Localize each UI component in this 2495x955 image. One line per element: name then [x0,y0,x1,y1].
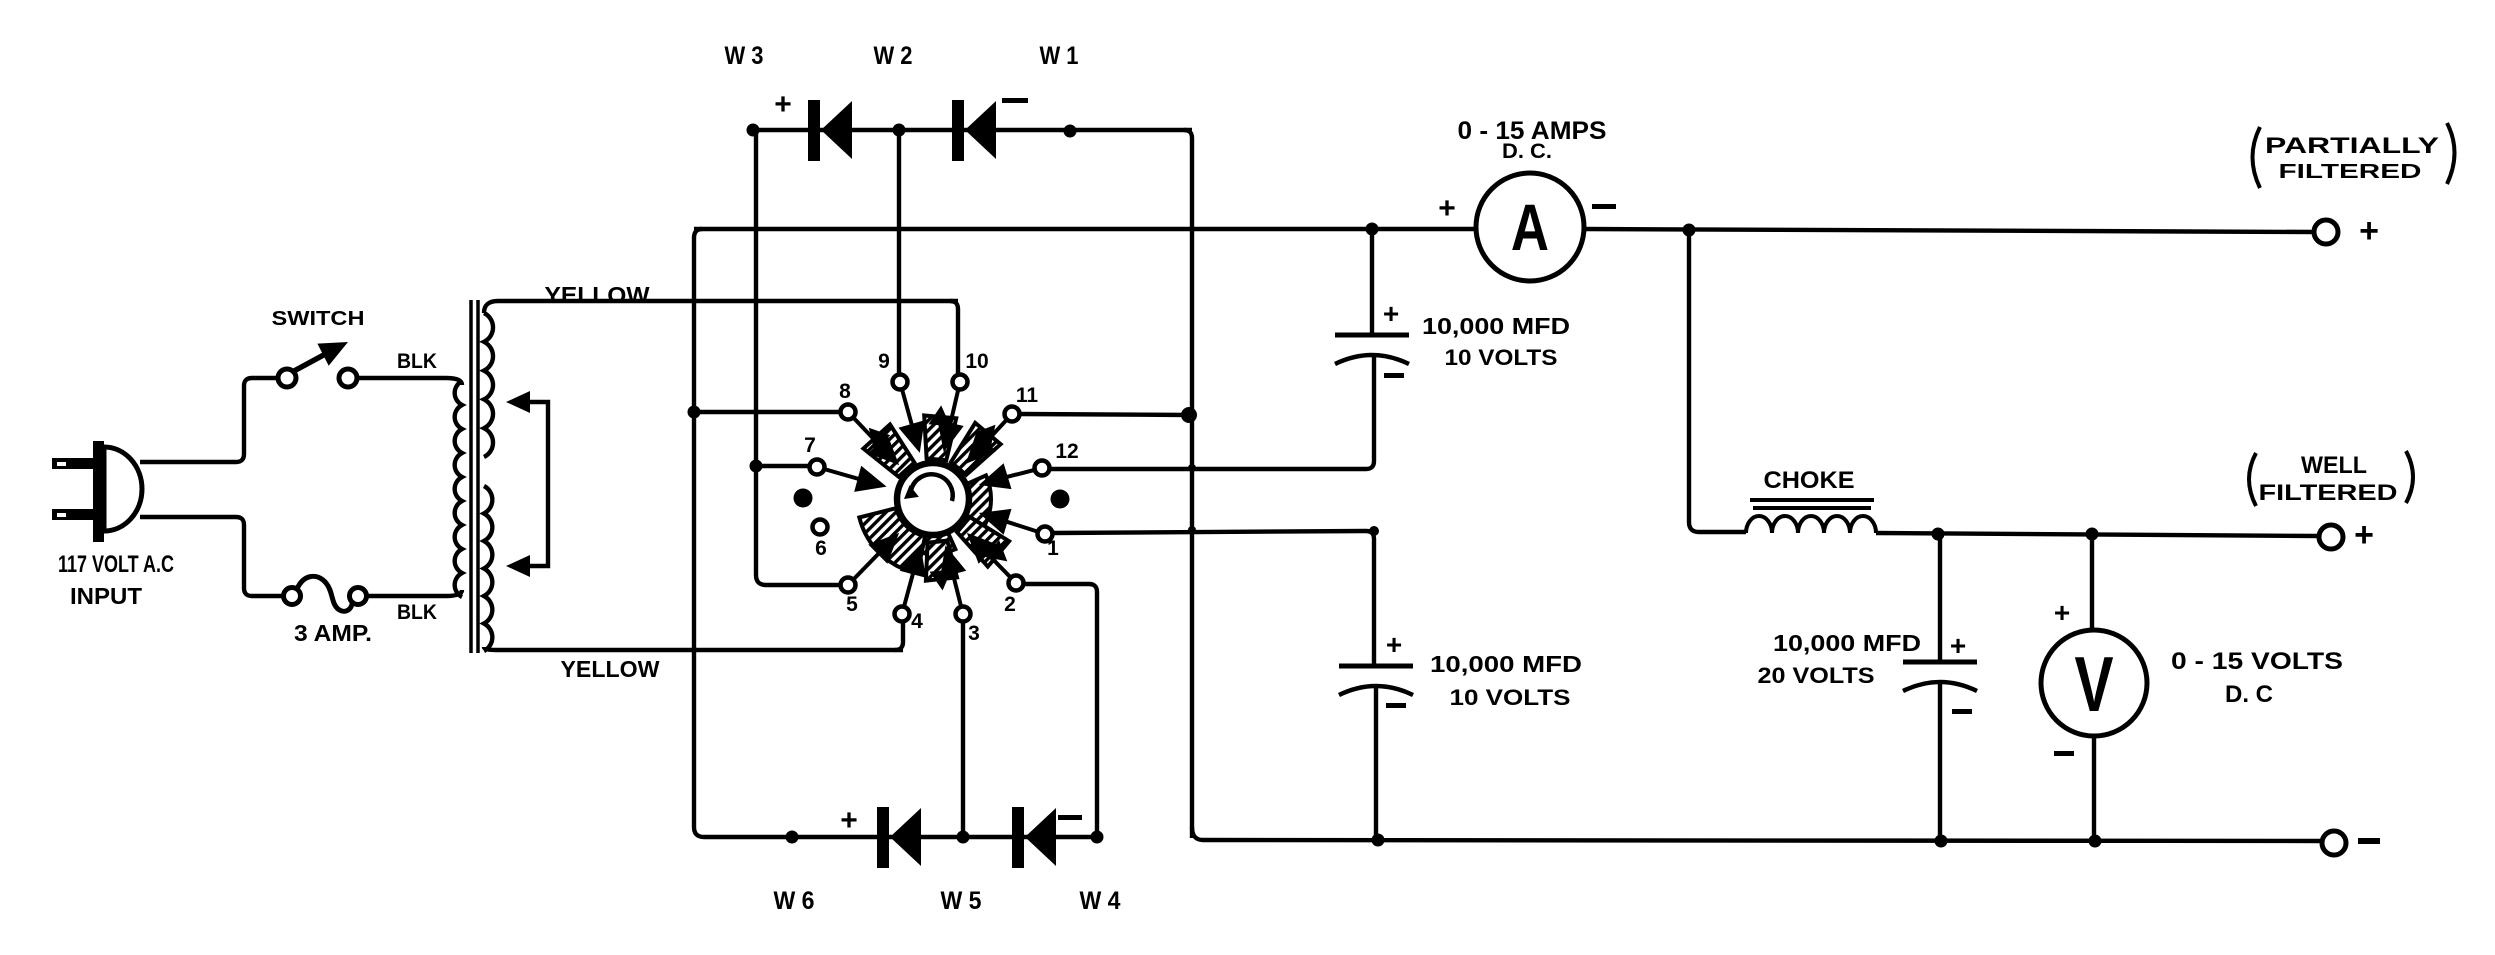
main positive wire [694,227,1476,231]
AC line plug [52,441,142,542]
label 0-15 AMPS DC [1458,117,1607,163]
wire top diode row [753,128,1192,132]
svg-text:+: + [774,88,792,121]
corner dot at C2 top corner [1369,526,1379,536]
terminal number labels [804,350,1079,645]
svg-text:FILTERED: FILTERED [2259,480,2398,505]
wire terminal 12 to cap C1 bottom [1049,357,1374,469]
mounting dot left [794,489,813,508]
label - output [2358,838,2380,844]
label WELL FILTERED [2249,451,2413,506]
wire plug to switch [140,378,278,462]
svg-text:CHOKE: CHOKE [1764,467,1855,494]
svg-text:W 1: W 1 [1040,42,1079,70]
svg-text:WELL: WELL [2301,452,2367,479]
svg-text:YELLOW: YELLOW [561,656,660,682]
junction between W3 and W2 [893,124,906,137]
wire C3 bottom lead [1938,684,1942,841]
transformer T1 secondary lower winding [484,486,492,651]
svg-text:INPUT: INPUT [70,583,142,609]
crossing dot on negative rail (t12 wire) [1188,464,1196,472]
ammeter M1 0-15 A DC [1476,173,1584,281]
output terminal negative - [2322,831,2346,855]
output terminal well-filtered + [2319,525,2343,549]
junction C2 on bottom rail [1372,834,1385,847]
svg-text:117 VOLT A.C: 117 VOLT A.C [58,551,174,578]
wire terminal 3 down to bottom diode row [961,622,965,837]
rotor hub circle with rotation arrow [897,463,969,535]
commutator terminal circles 1-12 [810,375,1053,622]
wire terminal 11 to negative rail [1019,414,1189,415]
svg-text:SWITCH: SWITCH [272,307,365,330]
wire vertical from W3 to terminal 5 wire [756,130,837,585]
svg-text:D. C.: D. C. [1502,140,1552,163]
svg-text:+: + [1438,192,1456,225]
wire terminal 2 down to bottom diode row [1024,584,1097,837]
svg-text:W 2: W 2 [874,42,913,70]
wire switch to transformer primary [357,378,462,385]
wire voltmeter top lead [2090,534,2094,630]
junction voltmeter top [2086,528,2099,541]
choke L1 core bars [1750,500,1874,508]
junction terminal-7 wire on vertical [750,460,763,473]
junction after W2 [1064,125,1077,138]
label C3 value [1758,630,1922,688]
bottom negative rail [1192,827,2322,841]
svg-text:+: + [1386,629,1402,660]
wire terminal 5 [837,583,841,587]
svg-text:W 5: W 5 [941,887,982,915]
junction terminal 11 on negative rail [1181,407,1197,423]
wire secondary top vertical to terminal 10 [950,301,958,373]
svg-text:BLK: BLK [397,350,437,373]
capacitor C3 10000MFD 20V [1903,660,1977,665]
svg-text:W 3: W 3 [725,42,764,70]
svg-text:12: 12 [1055,440,1078,463]
crossing dot on negative rail (t1 wire) [1188,526,1196,534]
svg-text:10,000 MFD: 10,000 MFD [1773,630,1921,656]
svg-text:+: + [1950,630,1966,661]
diode W2 [952,100,964,161]
svg-text:D. C: D. C [2225,681,2273,708]
svg-text:YELLOW: YELLOW [545,282,650,308]
svg-text:W 6: W 6 [774,887,815,915]
label - at W1 [1002,98,1028,103]
transformer T1 core [471,300,478,653]
junction choke branch [1683,224,1696,237]
fuse F1 3 AMP [284,576,367,611]
wire vertical from W2 to terminal 9 [897,130,901,373]
label C2 value [1430,651,1582,710]
output terminal partially-filtered + [2314,220,2338,244]
wire ammeter junction down to choke [1689,230,1746,532]
svg-text:V: V [2074,641,2113,728]
secondary center-tap bracket with arrows [506,391,548,577]
transformer T1 primary winding [455,381,462,597]
diode W3 [808,100,820,161]
svg-text:3 AMP.: 3 AMP. [294,620,372,646]
wire choke to well-filtered output [1876,533,2319,536]
label 117 VOLT A.C INPUT [58,551,174,609]
svg-text:+: + [2354,516,2374,554]
wire secondary bottom vertical to terminal 4 [895,622,903,650]
junction voltmeter on bottom rail [2089,835,2102,848]
label - at ammeter [1592,204,1616,209]
rotary rectifier hatched rotor [859,405,1009,590]
wire vertical negative rail W1/W4 [1184,130,1192,838]
wire voltmeter bottom lead [2092,736,2096,841]
svg-text:0 - 15 VOLTS: 0 - 15 VOLTS [2171,648,2343,675]
label - at C2 [1386,703,1406,708]
choke L1 winding [1746,516,1876,533]
junction C3 on bottom rail [1935,835,1948,848]
wire terminal 8 to left vertical [694,410,841,414]
diode W5 [877,807,889,868]
wire plug to fuse [140,517,283,596]
wire terminal 7 to W3 vertical [756,464,810,468]
voltmeter M2 0-15 V DC [2041,630,2147,736]
svg-text:A: A [1511,190,1549,264]
svg-text:+: + [1383,298,1399,329]
svg-text:W 4: W 4 [1080,887,1121,915]
svg-text:PARTIALLY: PARTIALLY [2265,133,2439,158]
svg-text:+: + [2359,212,2379,250]
junction at W3 anode [747,124,760,137]
terminal pointer arrows into rotor [817,382,1045,614]
svg-text:3: 3 [968,622,980,645]
svg-text:+: + [840,804,858,837]
wire ammeter to partially-filtered output [1584,229,2314,232]
svg-text:6: 6 [815,537,827,560]
svg-text:10 VOLTS: 10 VOLTS [1445,345,1558,370]
junction cap C1 top [1366,223,1379,236]
svg-text:20 VOLTS: 20 VOLTS [1758,663,1875,688]
label - at W4 [1058,815,1082,820]
label - at voltmeter [2054,751,2074,756]
wire C3 top lead [1938,534,1942,661]
wire fuse to transformer primary [367,590,462,596]
junction after W4 [1091,831,1104,844]
svg-text:10: 10 [965,350,988,373]
wire C2 bottom lead [1374,688,1378,840]
junction terminal-8 wire on left vertical [688,406,701,419]
svg-text:10 VOLTS: 10 VOLTS [1450,685,1571,710]
switch S1 [278,342,357,387]
svg-text:5: 5 [846,593,858,616]
label - at C1 [1384,373,1404,378]
label - at C3 [1952,709,1972,714]
capacitor C1 10000MFD 10V [1335,333,1409,338]
mounting dot right [1051,490,1070,509]
diode W4 [1012,807,1024,868]
transformer T1 secondary upper winding [484,301,958,313]
svg-text:+: + [2054,597,2070,628]
wire C1 top lead [1370,229,1374,334]
capacitor C2 10000MFD 10V [1339,664,1413,669]
wire bottom diode row [694,229,1097,837]
label PARTIALLY FILTERED [2253,123,2455,188]
svg-text:7: 7 [804,434,816,457]
label C1 value [1422,313,1570,370]
junction between W5 and W4 [957,831,970,844]
svg-text:8: 8 [839,380,851,403]
svg-text:4: 4 [911,610,923,633]
svg-text:9: 9 [878,350,890,373]
svg-text:FILTERED: FILTERED [2279,161,2422,183]
svg-text:BLK: BLK [397,601,437,624]
svg-text:10,000 MFD: 10,000 MFD [1422,313,1570,339]
svg-text:2: 2 [1004,593,1016,616]
label 0-15 VOLTS DC [2171,648,2343,708]
wire terminal 1 to cap C2 top [1052,531,1374,666]
junction cap C3 top [1932,528,1945,541]
svg-text:1: 1 [1047,537,1059,560]
svg-text:10,000 MFD: 10,000 MFD [1430,651,1582,677]
junction left of W5 [786,831,799,844]
svg-text:11: 11 [1016,384,1039,407]
